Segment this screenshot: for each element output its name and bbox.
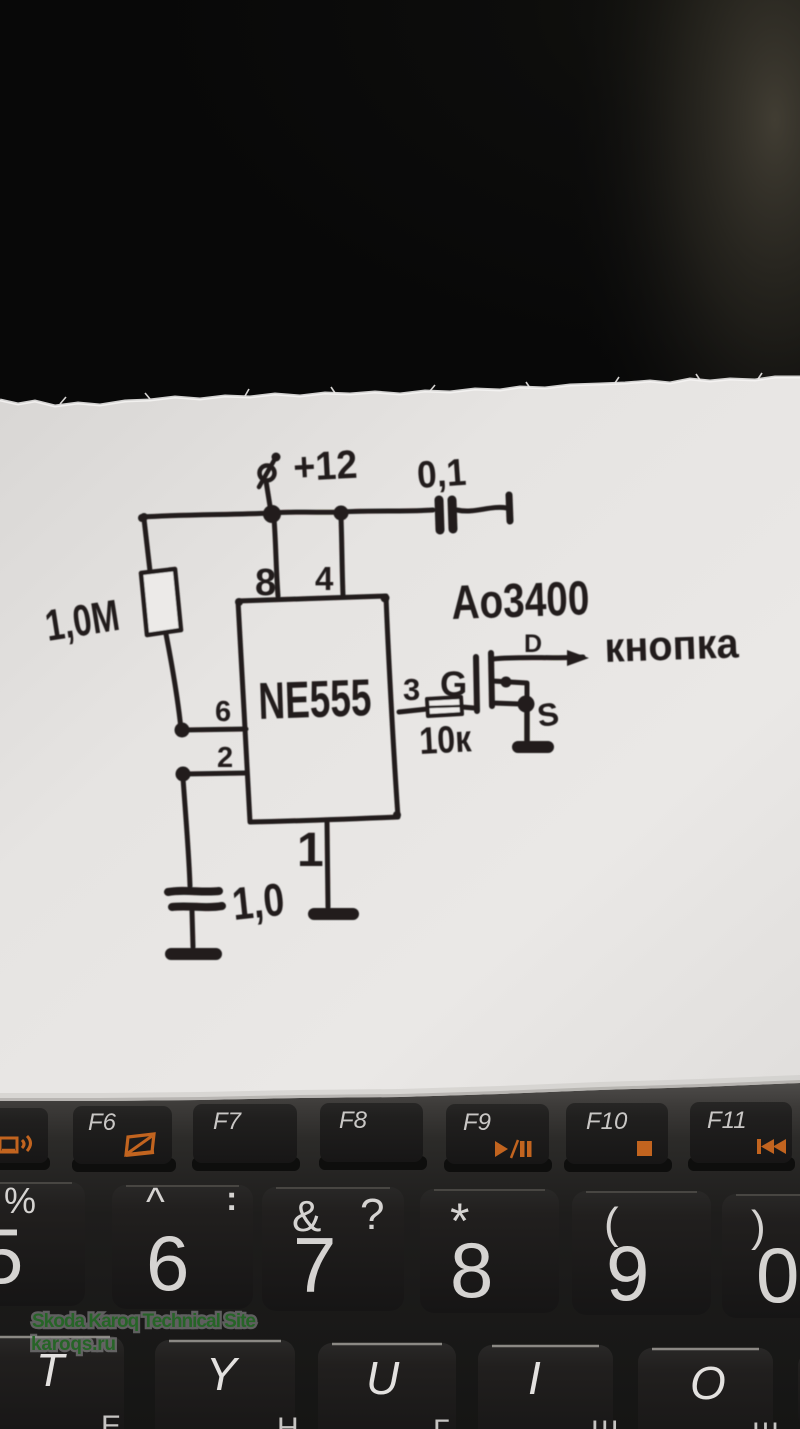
orange icons on F keys <box>0 1134 786 1158</box>
resistor R 10k body <box>427 697 462 716</box>
wire: pin 3 from NE555 to resistor 10k <box>399 709 427 712</box>
svg-text:5: 5 <box>0 1212 23 1300</box>
svg-text:G: G <box>440 665 467 704</box>
capacitor C 1,0 bottom plate <box>172 906 222 907</box>
wire: pin 2 <box>185 773 246 774</box>
torn edge fibers <box>60 373 762 404</box>
capacitor C 0,1 left plate <box>439 500 440 530</box>
arrowhead drain <box>567 650 589 666</box>
watermark Skoda Karoq Technical Site <box>31 1311 256 1355</box>
wire: 10k to gate <box>462 707 474 708</box>
letter row keys <box>0 1336 800 1429</box>
wire: pin 6 <box>184 729 246 730</box>
wire: body stub <box>493 681 527 702</box>
F9 play/pause <box>495 1141 508 1157</box>
svg-text:1: 1 <box>297 824 324 877</box>
svg-text::: : <box>226 1180 237 1218</box>
svg-text:0: 0 <box>756 1231 799 1319</box>
node: pin2 junction dot <box>176 767 191 782</box>
capacitor C 1,0 top plate <box>168 891 219 892</box>
svg-text:0,1: 0,1 <box>416 452 468 497</box>
wire: pin 1 to ground <box>327 821 328 907</box>
svg-text:F9: F9 <box>463 1109 491 1136</box>
svg-text:+12: +12 <box>292 443 358 490</box>
ground below capacitor 1,0 <box>171 948 216 960</box>
node: corner blob left end of rail <box>140 513 148 521</box>
node: box corner pen dots <box>235 598 243 606</box>
partial cyrillic sublabels at bottom edge <box>101 1410 780 1429</box>
terminal end tick <box>509 495 510 521</box>
wire: source stub <box>493 703 520 704</box>
number row keys <box>0 1182 800 1318</box>
svg-text:^: ^ <box>146 1180 165 1224</box>
svg-text:F8: F8 <box>339 1107 368 1134</box>
transistor Q1 AO3400 gate bar <box>476 657 477 711</box>
label +12 <box>292 443 358 490</box>
F-row labels <box>88 1107 747 1136</box>
number row top bevels <box>0 1183 800 1195</box>
wire: drain with arrow to кнопка <box>493 657 583 659</box>
svg-text:F11: F11 <box>707 1107 747 1134</box>
svg-text:Ao3400: Ao3400 <box>451 572 591 630</box>
svg-text:Ш: Ш <box>591 1415 619 1429</box>
svg-text:F7: F7 <box>213 1108 243 1135</box>
transistor Q1 channel bar <box>491 653 492 706</box>
svg-text:?: ? <box>360 1190 384 1239</box>
svg-text:6: 6 <box>215 696 231 728</box>
svg-text:6: 6 <box>146 1219 189 1307</box>
F6 lcd icon <box>126 1134 154 1155</box>
paper sheet with torn top edge <box>0 377 800 1101</box>
svg-text:NE555: NE555 <box>257 669 372 731</box>
node A junction dot <box>263 505 281 523</box>
wire: rail to resistor top <box>144 519 150 571</box>
wire: cap 1,0 to ground <box>192 911 193 947</box>
svg-text:Г: Г <box>433 1414 449 1429</box>
node: body stub dot <box>501 677 512 688</box>
svg-text:8: 8 <box>450 1226 493 1314</box>
svg-text:Е: Е <box>101 1410 121 1429</box>
svg-text:U: U <box>366 1352 400 1404</box>
letter row top bevels <box>0 1337 759 1349</box>
keyboard deck background <box>0 1060 800 1429</box>
svg-text:Y: Y <box>206 1348 240 1400</box>
paper torn edge fuzz <box>0 377 800 406</box>
svg-text:O: O <box>690 1357 726 1409</box>
svg-text:Щ: Щ <box>752 1417 780 1429</box>
wire: terminal to rail <box>266 481 270 506</box>
wire: pin 4 from node B to NE555 <box>341 517 343 595</box>
wire: pin2 node down to capacitor 1,0 <box>183 778 190 886</box>
svg-text:2: 2 <box>217 742 233 774</box>
node: pin6 junction dot <box>175 723 190 738</box>
F11 prev <box>757 1139 761 1154</box>
svg-text:D: D <box>524 630 542 658</box>
number row glyphs <box>0 1180 799 1319</box>
svg-text:Skoda Karoq Technical Site: Skoda Karoq Technical Site <box>32 1311 256 1332</box>
svg-text:3: 3 <box>403 672 420 707</box>
F-row keys <box>0 1102 792 1164</box>
node B junction dot <box>334 506 349 521</box>
svg-text:9: 9 <box>606 1229 649 1317</box>
svg-text:Н: Н <box>277 1412 299 1429</box>
paper bottom shadow band <box>0 1075 800 1101</box>
svg-text:karoqs.ru: karoqs.ru <box>31 1334 116 1355</box>
resistor R 1,0M body <box>141 569 181 635</box>
svg-text:I: I <box>528 1352 541 1404</box>
svg-text:7: 7 <box>293 1221 336 1309</box>
svg-text:1,0: 1,0 <box>230 873 287 930</box>
wire: source to ground <box>524 708 530 741</box>
speaker icon partial left <box>0 1138 17 1152</box>
F row key shadows <box>0 1156 795 1172</box>
ground below source <box>518 741 548 753</box>
svg-text:4: 4 <box>315 560 334 597</box>
svg-text:кнопка: кнопка <box>604 619 740 671</box>
power terminal +12 <box>260 466 275 481</box>
wire: +12 top rail <box>143 510 433 517</box>
svg-text:F10: F10 <box>586 1108 628 1135</box>
wire: resistor bottom to pin6 node <box>166 634 181 729</box>
wire: cap to end terminal <box>457 507 507 511</box>
svg-text:F6: F6 <box>88 1109 117 1136</box>
ground below pin 1 <box>314 908 353 920</box>
node: source junction dot <box>518 696 535 713</box>
dark background top (laptop screen) <box>0 0 800 480</box>
letter glyphs <box>36 1344 726 1409</box>
F10 stop <box>637 1141 652 1156</box>
NE555 IC body <box>238 596 398 822</box>
svg-text:10к: 10к <box>418 718 473 763</box>
wire: pin 8 from node A to NE555 <box>274 518 278 596</box>
capacitor C 0,1 right plate <box>452 500 453 529</box>
